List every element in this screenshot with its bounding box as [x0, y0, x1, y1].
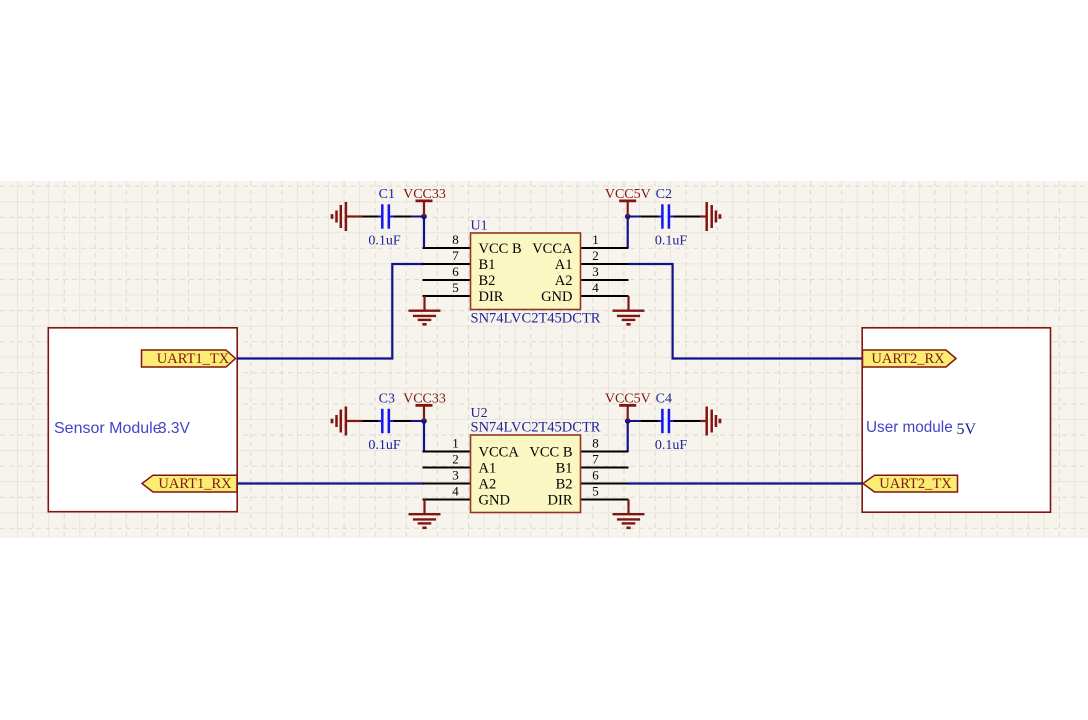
svg-text:C4: C4: [656, 392, 672, 407]
svg-text:B2: B2: [479, 273, 496, 289]
svg-text:8: 8: [452, 232, 459, 247]
svg-text:3: 3: [452, 468, 459, 483]
svg-text:DIR: DIR: [479, 289, 504, 305]
svg-text:C2: C2: [656, 187, 672, 202]
svg-text:UART1_TX: UART1_TX: [157, 351, 230, 367]
svg-text:A1: A1: [479, 461, 497, 477]
svg-text:GND: GND: [479, 493, 510, 509]
svg-text:4: 4: [592, 280, 599, 295]
svg-text:2: 2: [452, 452, 459, 467]
svg-text:VCCA: VCCA: [479, 445, 520, 461]
svg-text:8: 8: [592, 436, 599, 451]
svg-text:UART2_RX: UART2_RX: [871, 351, 945, 367]
svg-text:A2: A2: [555, 273, 573, 289]
svg-text:7: 7: [592, 452, 599, 467]
svg-text:5: 5: [452, 280, 459, 295]
svg-text:B2: B2: [556, 477, 573, 493]
svg-text:A1: A1: [555, 257, 573, 273]
svg-text:DIR: DIR: [548, 493, 573, 509]
svg-text:VCC B: VCC B: [529, 445, 572, 461]
svg-text:A2: A2: [479, 477, 497, 493]
svg-text:2: 2: [592, 248, 599, 263]
svg-text:C1: C1: [379, 187, 395, 202]
svg-text:3: 3: [592, 264, 599, 279]
svg-text:Sensor Module: Sensor Module: [54, 420, 162, 437]
svg-text:1: 1: [452, 436, 459, 451]
svg-text:5: 5: [592, 484, 599, 499]
svg-text:C3: C3: [379, 392, 395, 407]
svg-text:B1: B1: [479, 257, 496, 273]
svg-text:6: 6: [452, 264, 459, 279]
svg-text:VCC B: VCC B: [479, 241, 522, 257]
svg-text:VCCA: VCCA: [532, 241, 573, 257]
svg-text:GND: GND: [541, 289, 572, 305]
svg-text:5V: 5V: [957, 421, 977, 438]
svg-text:User module: User module: [866, 419, 953, 436]
svg-text:7: 7: [452, 248, 459, 263]
svg-text:UART2_TX: UART2_TX: [879, 476, 952, 492]
svg-text:SN74LVC2T45DCTR: SN74LVC2T45DCTR: [471, 311, 601, 327]
svg-text:3.3V: 3.3V: [158, 420, 191, 437]
svg-text:6: 6: [592, 468, 599, 483]
svg-text:B1: B1: [556, 461, 573, 477]
svg-text:SN74LVC2T45DCTR: SN74LVC2T45DCTR: [471, 420, 601, 436]
svg-text:U1: U1: [471, 219, 488, 234]
svg-text:UART1_RX: UART1_RX: [158, 476, 232, 492]
svg-text:1: 1: [592, 232, 599, 247]
svg-text:4: 4: [452, 484, 459, 499]
